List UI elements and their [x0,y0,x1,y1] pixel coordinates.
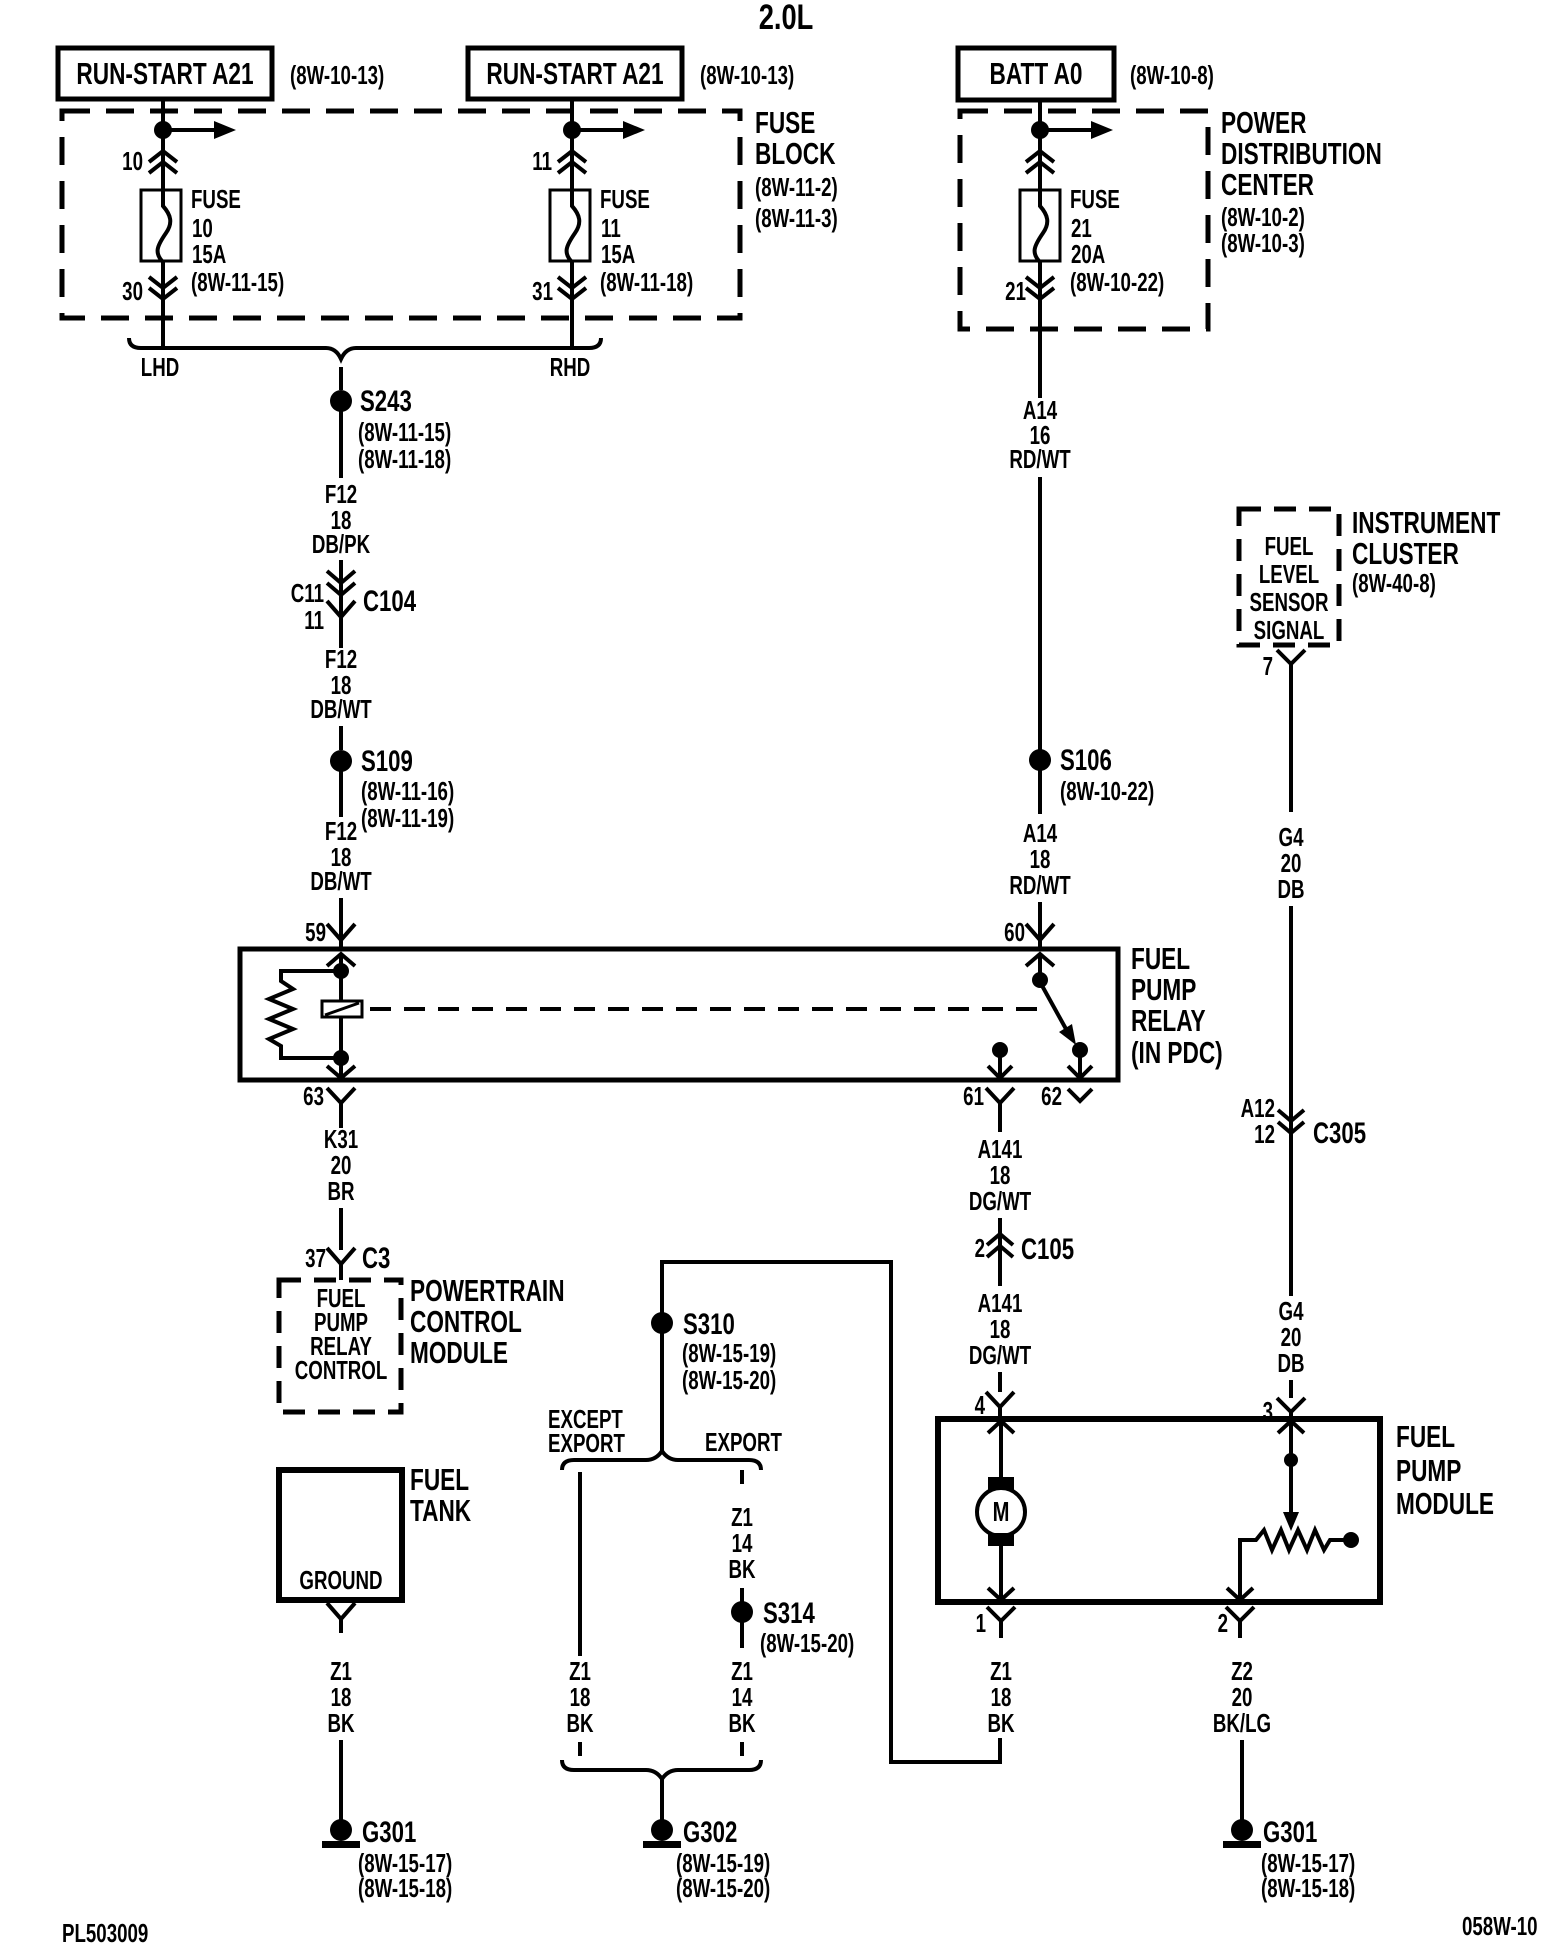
svg-text:C3: C3 [362,1241,390,1275]
wire branch arrow (RHD feed continues) [572,121,645,139]
fuel tank ground fork [327,1603,355,1633]
svg-text:62: 62 [1041,1081,1062,1111]
svg-text:7: 7 [1263,651,1273,681]
fuse 21 input connector chevrons [1026,151,1054,173]
node RUN-START A21 (RHD feed) [468,48,682,99]
wire relay coil vertical [339,954,343,1080]
svg-text:61: 61 [963,1081,984,1111]
ground G301 (left) [322,1815,452,1903]
svg-text:30: 30 [122,276,143,306]
wire S243 to C104 [339,411,343,478]
svg-text:CONTROL: CONTROL [295,1355,388,1385]
resistor relay coil shunt [269,971,341,1058]
svg-text:DB/WT: DB/WT [310,866,371,896]
svg-text:(8W-11-16): (8W-11-16) [361,776,454,806]
svg-text:(8W-11-2): (8W-11-2) [755,172,838,202]
wire fuse 10 output [161,261,165,348]
pin 4 arrow inside module [988,1421,1014,1433]
svg-text:BK: BK [728,1708,756,1738]
label FUSE BLOCK [755,104,838,232]
node contact 62 [1072,1042,1088,1058]
label FUEL PUMP MODULE [1396,1418,1494,1520]
wire label G4 20 DB (upper) [1277,822,1304,904]
label (8W-10-13) [290,60,384,90]
svg-text:CLUSTER: CLUSTER [1352,535,1459,570]
svg-text:RUN-START A21: RUN-START A21 [486,55,663,90]
wire S310 riser [660,1260,664,1323]
node junction dot on LHD feed [154,121,172,139]
wire label Z2 20 BK/LG [1213,1656,1271,1738]
power distribution center dashed enclosure [960,111,1208,329]
svg-text:(8W-10-13): (8W-10-13) [290,60,384,90]
pin 7 connector fork [1263,650,1305,681]
fuse F11 [550,190,590,262]
svg-text:60: 60 [1004,917,1025,947]
svg-text:31: 31 [532,276,553,306]
svg-text:M: M [993,1497,1010,1528]
wire LHD feed into fuse 10 [161,99,165,192]
svg-text:37: 37 [305,1243,326,1273]
svg-text:(IN PDC): (IN PDC) [1131,1034,1223,1069]
svg-text:DB/WT: DB/WT [310,694,371,724]
svg-text:FUEL: FUEL [1265,531,1314,561]
label (8W-10-8) [1130,60,1214,90]
node junction dot on RHD feed [563,121,581,139]
wire S310 to split brace [660,1333,664,1452]
svg-text:S109: S109 [361,744,413,778]
fuel tank box [279,1470,402,1600]
value label FUSE 11 15A [600,184,693,297]
pin 4 connector fork [975,1390,1014,1420]
fuel pump module box [938,1419,1380,1602]
wire label G4 20 DB (lower) [1277,1296,1304,1378]
svg-text:(8W-10-8): (8W-10-8) [1130,60,1214,90]
wire pin 4 to motor [999,1421,1003,1480]
wire label F12 18 DB/WT [310,816,371,896]
wire A14 down to S106 [1038,477,1042,750]
value label FUSE 10 15A [191,184,284,297]
node sender return terminal [1343,1532,1359,1548]
svg-text:3: 3 [1263,1396,1273,1426]
svg-text:(8W-10-22): (8W-10-22) [1070,267,1164,297]
label EXCEPT EXPORT [548,1404,625,1458]
wire S314 down [740,1622,744,1648]
node coil bottom junction [333,1050,349,1066]
svg-text:058W-10: 058W-10 [1462,1911,1538,1941]
sender wiper arrow [1283,1460,1299,1531]
pin 3 connector fork [1263,1396,1305,1426]
wire dashed actuation link [370,1007,1046,1011]
svg-text:11: 11 [532,146,552,176]
wire motor to pin 1 [999,1546,1003,1602]
title 2.0L [759,0,814,37]
node contact 61 [992,1042,1008,1058]
svg-text:RHD: RHD [550,352,591,382]
svg-text:FUSE: FUSE [600,184,650,214]
wire common feed to switch [1038,954,1042,980]
pin 10 connector chevrons [122,146,177,176]
label POWER DISTRIBUTION CENTER [1221,104,1382,257]
svg-text:DG/WT: DG/WT [969,1340,1031,1370]
svg-text:DB: DB [1277,874,1304,904]
switch movable contact arm [1040,982,1076,1045]
svg-text:59: 59 [305,917,326,947]
label (8W-10-13) [700,60,794,90]
svg-text:(8W-15-20): (8W-15-20) [760,1628,854,1658]
wire tank ground to G301 [339,1740,343,1822]
wire stub into S314 [740,1588,744,1602]
svg-text:PUMP: PUMP [1396,1452,1461,1487]
wire brace to G302 [660,1779,664,1822]
wire label A14 16 RD/WT [1009,395,1070,474]
svg-text:20A: 20A [1071,239,1105,269]
wire label A141 18 DG/WT (lower) [969,1288,1031,1370]
svg-text:21: 21 [1005,276,1026,306]
pin 3 arrow inside module [1278,1421,1304,1433]
connector C305 pin 12 [1241,1093,1366,1150]
pin 30 connector chevrons [122,276,177,306]
wire stub except-export to brace [578,1742,582,1756]
svg-text:(8W-11-15): (8W-11-15) [358,417,451,447]
node RUN-START A21 (LHD feed) [58,48,272,99]
svg-text:C104: C104 [363,584,416,618]
wire Z2 to G301 [1240,1740,1244,1822]
node switch common [1032,972,1048,988]
pin 59 arrow inside relay [327,954,355,966]
svg-text:TANK: TANK [410,1492,471,1527]
svg-text:1: 1 [976,1608,986,1638]
pin 2 connector fork [1218,1607,1254,1638]
wire except-export branch [578,1472,582,1656]
wire into C104 [339,560,343,648]
svg-text:RD/WT: RD/WT [1009,870,1070,900]
svg-text:2: 2 [1218,1608,1228,1638]
node coil top junction [333,963,349,979]
svg-text:BK: BK [728,1554,756,1584]
svg-text:C11: C11 [291,578,324,608]
node sender feed junction [1284,1453,1298,1467]
relay K1 fuel pump relay box [240,949,1118,1080]
label EXPORT [705,1427,782,1457]
svg-text:LHD: LHD [141,352,179,382]
wire pin 62 [1078,1050,1082,1080]
fuse block dashed enclosure [62,111,740,318]
svg-text:(8W-15-19): (8W-15-19) [682,1338,776,1368]
svg-text:SIGNAL: SIGNAL [1254,615,1325,645]
motor M1 fuel pump [977,1477,1025,1546]
svg-text:2: 2 [975,1233,985,1263]
label INSTRUMENT CLUSTER [1352,504,1501,597]
wire label Z1 14 BK (export upper) [728,1502,756,1584]
module U1 powertrain control module dashed box [279,1280,401,1412]
wire fuse 11 output [570,261,574,348]
svg-text:BLOCK: BLOCK [755,135,836,170]
pin 21 connector chevrons [1005,276,1054,306]
svg-text:(8W-11-18): (8W-11-18) [358,444,451,474]
pin 63 connector fork below relay [303,1081,355,1117]
node S310 splice [651,1307,776,1395]
wire label A14 18 RD/WT [1009,818,1070,900]
svg-text:CENTER: CENTER [1221,166,1314,201]
svg-text:MODULE: MODULE [1396,1485,1494,1520]
svg-text:DG/WT: DG/WT [969,1186,1031,1216]
wire branch arrow (LHD feed continues) [163,121,236,139]
wire branch arrow (BATT feed continues) [1040,121,1113,139]
wire S106 to relay pin 60 [1038,770,1042,814]
svg-text:RD/WT: RD/WT [1009,444,1070,474]
ground G302 [643,1815,770,1903]
svg-text:FUSE: FUSE [1070,184,1120,214]
wire RHD feed into fuse 11 [570,99,574,192]
svg-text:11: 11 [304,605,324,635]
svg-text:GROUND: GROUND [299,1565,382,1595]
svg-text:SENSOR: SENSOR [1249,587,1328,617]
svg-text:DB: DB [1277,1348,1304,1378]
pin 2 chevron at module edge [1227,1588,1253,1600]
wire cluster to C305 [1289,678,1293,812]
svg-text:RELAY: RELAY [1131,1002,1206,1037]
svg-text:BK: BK [327,1708,355,1738]
wire label Z1 14 BK (export lower) [728,1656,756,1738]
pin 62 chevron inside relay [1068,1066,1092,1078]
svg-text:(8W-11-3): (8W-11-3) [755,203,838,233]
svg-text:FUSE: FUSE [191,184,241,214]
pin 1 connector fork [976,1607,1015,1638]
connector C105 pin 2 [975,1232,1074,1266]
pin 61 connector fork below relay [963,1081,1014,1117]
svg-text:FUEL: FUEL [1396,1418,1455,1453]
label FUEL PUMP RELAY (IN PDC) [1131,940,1223,1069]
wire K31 to PCM pin 37 [339,1208,343,1250]
svg-text:(8W-10-13): (8W-10-13) [700,60,794,90]
label 058W-10 [1462,1911,1538,1941]
wire label K31 20 BR [324,1124,358,1206]
node S106 splice [1029,743,1154,806]
wire label F12 18 DB/WT [310,644,371,724]
wire into C105 [998,1218,1002,1286]
fuse F21 [1020,190,1060,262]
pin 60 connector fork [1004,917,1054,947]
label POWERTRAIN CONTROL MODULE [410,1272,565,1369]
svg-text:15A: 15A [601,239,635,269]
brace join to G302 [562,1760,761,1779]
svg-text:63: 63 [303,1081,324,1111]
pin 31 connector chevrons [532,276,586,306]
wire pin 61 [998,1050,1002,1080]
svg-text:S314: S314 [763,1596,815,1630]
svg-text:2.0L: 2.0L [759,0,814,37]
svg-text:EXPORT: EXPORT [548,1428,625,1458]
wire export branch stub [740,1470,744,1484]
module instrument cluster dashed box [1239,509,1339,645]
wire into relay pin 60 [1038,902,1042,949]
value label FUSE 21 20A [1070,184,1164,297]
svg-text:(8W-11-19): (8W-11-19) [361,803,454,833]
svg-text:LEVEL: LEVEL [1259,559,1319,589]
svg-text:(8W-11-15): (8W-11-15) [191,267,284,297]
wire stub to S243 [339,367,343,390]
fuse F10 [141,190,181,262]
svg-text:BK/LG: BK/LG [1213,1708,1271,1738]
pin 37 connector C3 fork [305,1241,390,1280]
svg-text:(8W-40-8): (8W-40-8) [1352,568,1436,598]
svg-text:MODULE: MODULE [410,1334,508,1369]
node S243 splice [330,384,451,474]
svg-text:(8W-11-18): (8W-11-18) [600,267,693,297]
wire BATT feed into fuse 21 [1038,100,1042,192]
wire relay pin 63 K31 [339,1117,343,1128]
node junction dot on BATT feed [1031,121,1049,139]
svg-text:G301: G301 [1263,1815,1317,1849]
wire into module pin 3 [1289,1380,1293,1398]
node S314 splice [731,1596,854,1658]
svg-text:15A: 15A [192,239,226,269]
relay coil element [322,1001,362,1017]
ground G301 (right) [1223,1815,1355,1903]
wire label A141 18 DG/WT (upper) [969,1134,1031,1216]
label FUEL TANK [410,1461,471,1527]
svg-text:S106: S106 [1060,743,1112,777]
svg-text:(8W-15-20): (8W-15-20) [676,1873,770,1903]
svg-text:BK: BK [987,1708,1015,1738]
wire relay pin 61 A141 [998,1117,1002,1132]
svg-text:12: 12 [1254,1119,1275,1149]
label PL503009 [62,1918,148,1948]
svg-text:(8W-10-3): (8W-10-3) [1221,228,1305,258]
wire stub export to brace [740,1742,744,1756]
wire label F12 18 DB/PK [312,479,371,559]
svg-text:BR: BR [327,1176,354,1206]
svg-text:G301: G301 [362,1815,416,1849]
pin 60 arrow inside relay [1026,954,1054,966]
resistor fuel level sender [1240,1530,1345,1600]
wire label Z1 18 BK [327,1656,355,1738]
brace split to variants [562,1451,761,1470]
svg-text:(8W-15-20): (8W-15-20) [682,1365,776,1395]
pin 63 chevron inside relay [327,1066,355,1078]
wire S109 to relay pin 59 [339,771,343,817]
svg-text:G302: G302 [683,1815,737,1849]
wire into relay pin 59 [339,898,343,949]
svg-text:DB/PK: DB/PK [312,529,371,559]
svg-text:RUN-START A21: RUN-START A21 [76,55,253,90]
pin 62 chevron below relay [1041,1081,1092,1111]
svg-text:S310: S310 [683,1307,735,1341]
pin 61 chevron inside relay [988,1066,1012,1078]
svg-text:10: 10 [122,146,143,176]
svg-text:PL503009: PL503009 [62,1918,148,1948]
connector C104 [291,571,417,635]
svg-text:(8W-15-18): (8W-15-18) [358,1873,452,1903]
pin 1 chevron at module edge [988,1588,1014,1600]
wire module pin 1 ground run to S310 [662,1262,1000,1762]
pin 59 connector fork [305,917,355,947]
svg-text:C105: C105 [1021,1232,1074,1266]
pin 11 connector chevrons [532,146,586,176]
svg-text:BK: BK [566,1708,594,1738]
node S109 splice [330,744,454,833]
wire fuse 21 output A14 [1038,261,1042,398]
wire label Z1 18 BK (except export) [566,1656,594,1738]
svg-text:EXPORT: EXPORT [705,1427,782,1457]
svg-text:(8W-15-18): (8W-15-18) [1261,1873,1355,1903]
brace joining LHD and RHD wires [129,338,601,382]
wire label Z1 18 BK (pump) [987,1656,1015,1738]
svg-text:BATT A0: BATT A0 [990,55,1083,90]
svg-text:C305: C305 [1313,1116,1366,1150]
wire into C305 [1289,906,1293,1296]
svg-text:S243: S243 [360,384,412,418]
svg-text:(8W-10-22): (8W-10-22) [1060,776,1154,806]
svg-text:4: 4 [975,1390,986,1420]
node BATT A0 feed [958,48,1114,100]
wire pin 3 to sender [1289,1421,1293,1462]
wire into module pin 4 [998,1372,1002,1392]
wire into S109 [339,726,343,750]
